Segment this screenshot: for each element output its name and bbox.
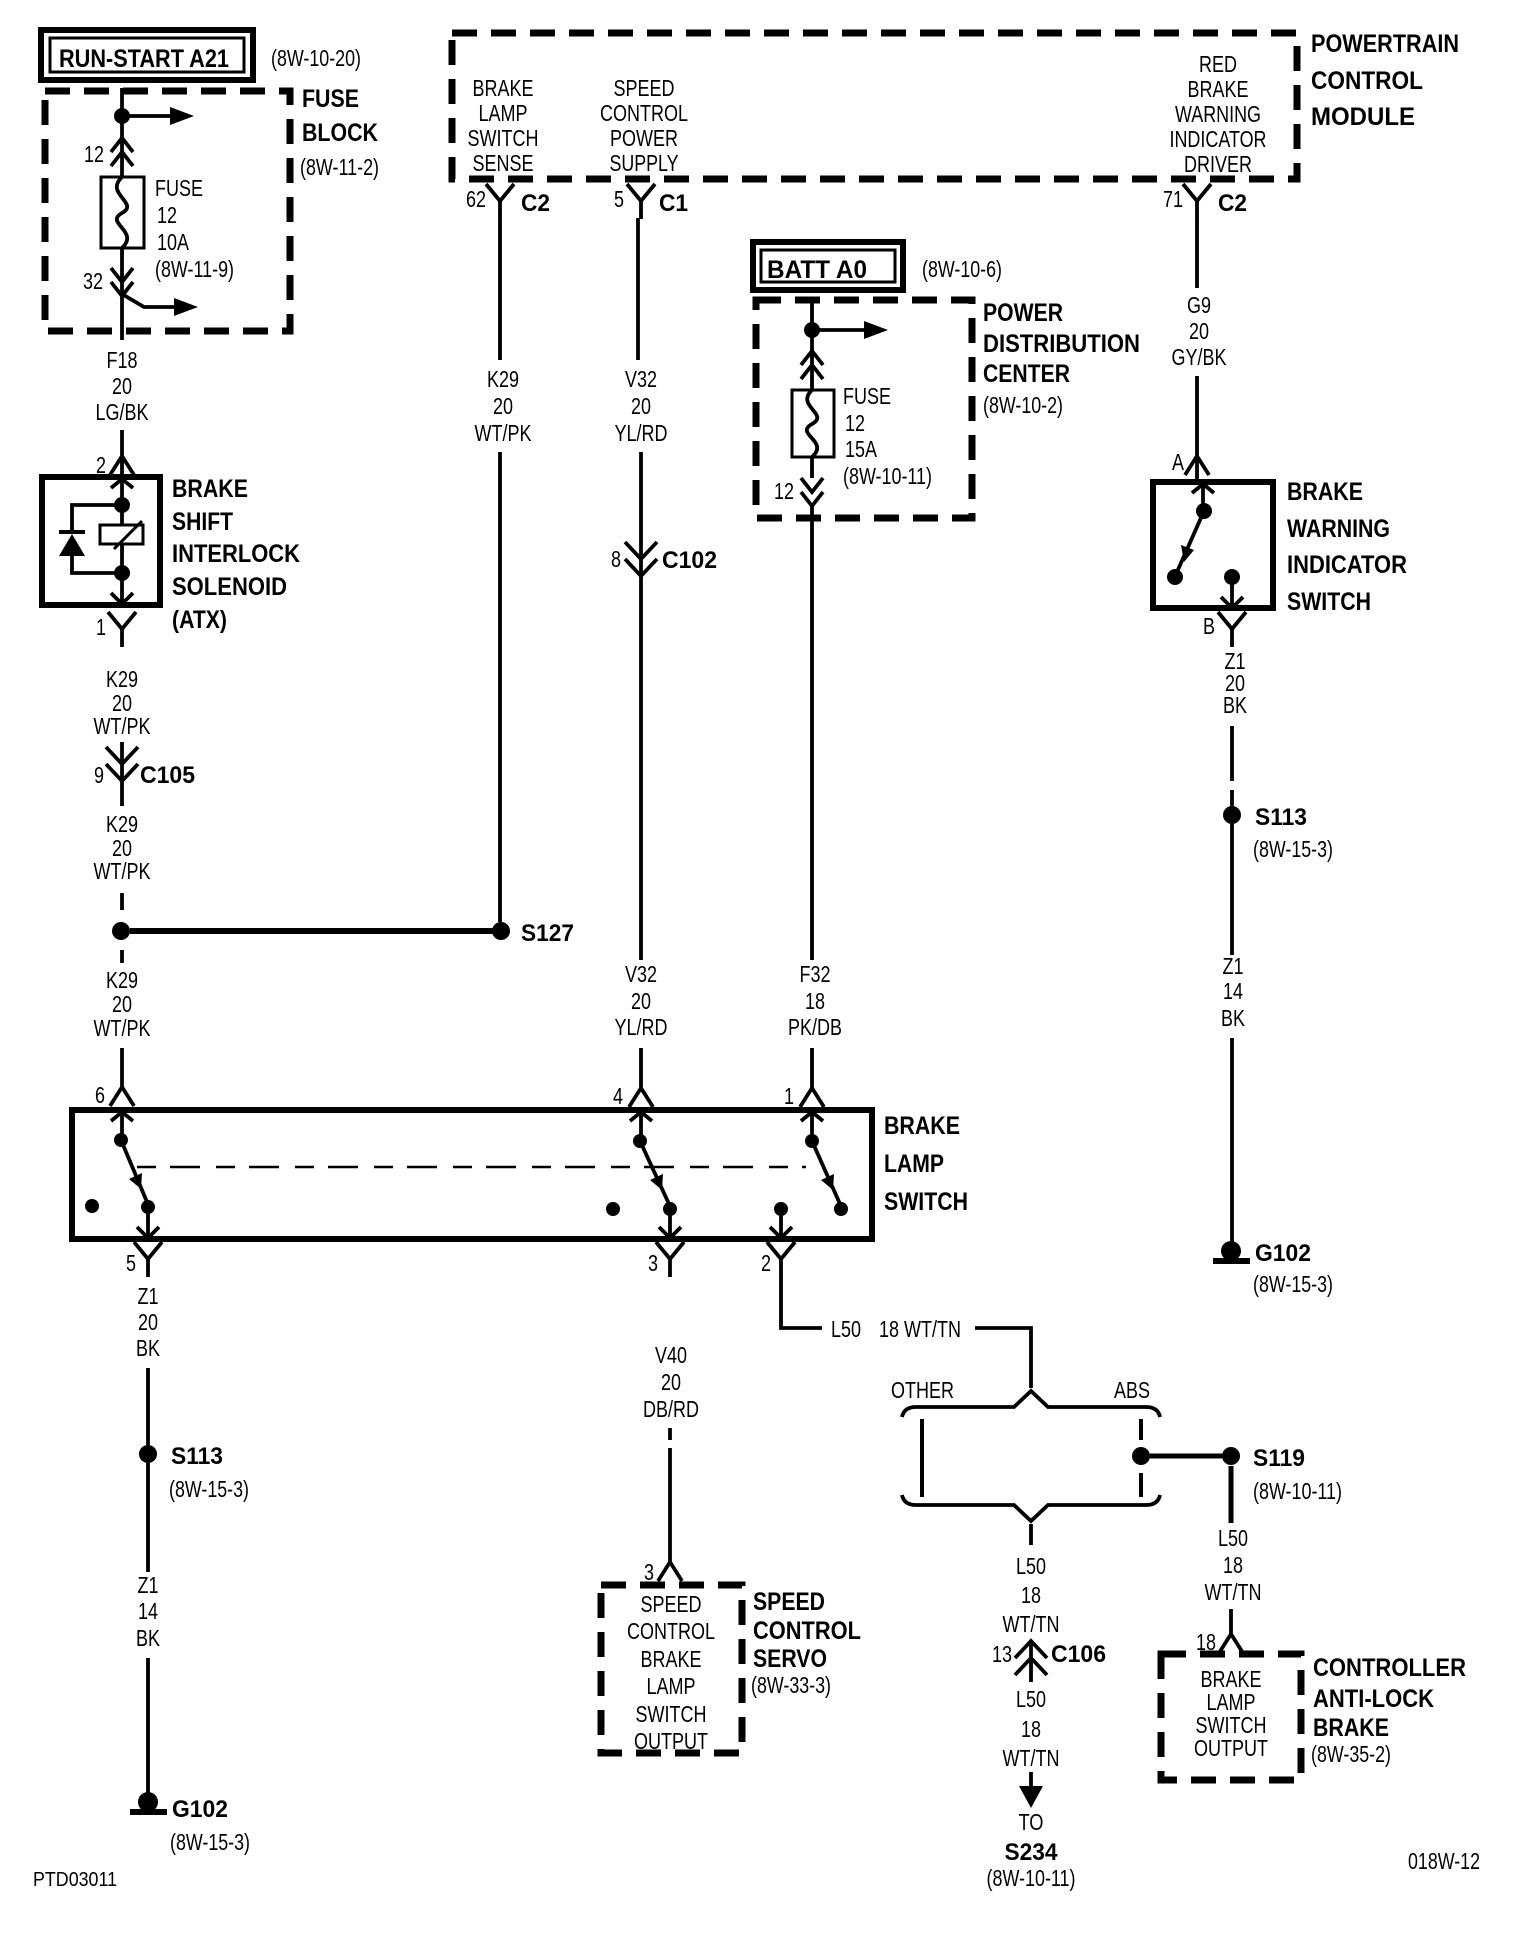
- wire pin 4 stub: [639, 1112, 643, 1141]
- junction lower in solenoid: [114, 565, 130, 581]
- splice S119 tie wire: [1150, 1454, 1222, 1459]
- svg-text:LAMP: LAMP: [647, 1673, 696, 1699]
- svg-text:INDICATOR: INDICATOR: [1287, 551, 1407, 579]
- wire branch arrow right (other circuits): [122, 294, 198, 316]
- ground G102 (right): [1213, 1241, 1250, 1264]
- svg-text:F32: F32: [800, 961, 831, 987]
- svg-text:MODULE: MODULE: [1311, 103, 1415, 131]
- svg-text:PTD03011: PTD03011: [33, 1869, 117, 1891]
- wire pin 3 exit with arrow: [659, 1209, 681, 1238]
- wire F32 18 PK/DB label: [788, 961, 842, 1040]
- svg-text:BK: BK: [136, 1625, 161, 1651]
- svg-text:LG/BK: LG/BK: [96, 399, 150, 425]
- wire L50 into controller anti-lock brake: [1229, 1609, 1233, 1634]
- svg-text:(8W-10-6): (8W-10-6): [922, 256, 1002, 282]
- svg-text:6: 6: [95, 1082, 105, 1108]
- svg-text:C2: C2: [1218, 190, 1247, 217]
- svg-text:12: 12: [774, 478, 794, 504]
- svg-text:SUPPLY: SUPPLY: [610, 150, 679, 176]
- svg-text:C105: C105: [140, 762, 195, 789]
- pin 5 connector brake lamp switch: [126, 1242, 162, 1277]
- splice junction left dot: [112, 922, 130, 940]
- svg-text:CONTROLLER: CONTROLLER: [1313, 1654, 1466, 1682]
- svg-text:POWER: POWER: [610, 125, 678, 151]
- svg-text:CONTROL: CONTROL: [600, 100, 688, 126]
- svg-text:(8W-10-11): (8W-10-11): [987, 1865, 1076, 1891]
- brake shift interlock solenoid box: [42, 477, 160, 605]
- svg-text:(8W-10-2): (8W-10-2): [983, 392, 1063, 418]
- wire Z1 14 BK (right): [1230, 824, 1234, 955]
- svg-text:V32: V32: [625, 961, 657, 987]
- svg-text:CONTROL: CONTROL: [1311, 67, 1423, 95]
- svg-text:(8W-10-11): (8W-10-11): [1253, 1478, 1342, 1504]
- svg-text:WARNING: WARNING: [1175, 101, 1261, 127]
- wire V32 into brake lamp switch: [639, 1048, 643, 1088]
- svg-text:(8W-11-9): (8W-11-9): [155, 256, 234, 282]
- svg-text:18: 18: [1223, 1552, 1243, 1578]
- wire K29 into brake lamp switch: [120, 1048, 124, 1087]
- diode (suppression): [59, 532, 85, 556]
- speed control servo title: [751, 1588, 861, 1698]
- svg-text:CONTROL: CONTROL: [753, 1617, 861, 1645]
- wire L50 to brace split: [975, 1328, 1031, 1388]
- brace upper (wiring option split): [902, 1391, 1160, 1417]
- svg-text:C2: C2: [521, 190, 550, 217]
- svg-text:1: 1: [784, 1083, 794, 1109]
- wire pin 5 exit with arrow: [137, 1207, 159, 1238]
- svg-text:B: B: [1203, 613, 1215, 639]
- svg-text:20: 20: [112, 991, 132, 1017]
- svg-text:L50: L50: [1218, 1525, 1248, 1551]
- pin A chevron inside switch: [1192, 484, 1214, 493]
- svg-text:3: 3: [648, 1250, 658, 1276]
- pin 3 connector brake lamp switch: [648, 1242, 684, 1277]
- svg-text:71: 71: [1163, 186, 1183, 212]
- svg-text:YL/RD: YL/RD: [615, 420, 668, 446]
- fuse block title: [300, 85, 379, 180]
- svg-text:WT/TN: WT/TN: [1003, 1745, 1060, 1771]
- svg-text:CENTER: CENTER: [983, 360, 1070, 388]
- wire into splice S127: [120, 893, 124, 910]
- svg-text:RED: RED: [1199, 51, 1237, 77]
- wire pin 6 stub: [120, 1112, 124, 1140]
- svg-text:S127: S127: [521, 920, 574, 947]
- pin B connector brake warning indicator switch: [1203, 612, 1246, 647]
- connector pin 71 C2: [1163, 184, 1247, 219]
- svg-text:BRAKE: BRAKE: [1313, 1714, 1389, 1742]
- svg-text:SOLENOID: SOLENOID: [172, 573, 287, 601]
- svg-text:BK: BK: [136, 1335, 161, 1361]
- svg-text:20: 20: [631, 393, 651, 419]
- wire below splice: [120, 950, 124, 963]
- svg-text:SENSE: SENSE: [473, 150, 534, 176]
- speed control servo pin function text: [627, 1591, 715, 1754]
- connector pin 12 PDC: [774, 478, 823, 506]
- brake warning indicator switch title: [1287, 478, 1407, 616]
- svg-text:POWER: POWER: [983, 299, 1063, 327]
- switch 3 movable arm with arrowhead: [812, 1141, 840, 1204]
- svg-text:(8W-15-3): (8W-15-3): [1253, 836, 1333, 862]
- svg-text:BLOCK: BLOCK: [302, 119, 378, 147]
- wire OTHER option stub: [920, 1419, 924, 1497]
- svg-text:K29: K29: [106, 967, 138, 993]
- svg-text:9: 9: [94, 762, 104, 788]
- wire G9 20 GY/BK label: [1172, 292, 1228, 370]
- svg-text:DISTRIBUTION: DISTRIBUTION: [983, 330, 1140, 358]
- svg-text:62: 62: [466, 186, 486, 212]
- svg-text:10A: 10A: [157, 229, 190, 255]
- wire ABS option dashed stub: [1139, 1419, 1143, 1497]
- svg-text:WT/PK: WT/PK: [475, 420, 533, 446]
- svg-text:20: 20: [112, 373, 132, 399]
- svg-text:3: 3: [644, 1559, 654, 1585]
- svg-text:(8W-35-2): (8W-35-2): [1311, 1741, 1391, 1767]
- svg-text:G102: G102: [172, 1796, 228, 1823]
- svg-text:S113: S113: [171, 1443, 223, 1470]
- wire L50 18 WT/TN label (below merge): [1003, 1553, 1060, 1637]
- switch 2 lower contact dot: [663, 1202, 677, 1216]
- pin 3 connector speed control servo: [644, 1559, 682, 1585]
- switch 1 upper contact dot: [114, 1133, 128, 1147]
- svg-text:OUTPUT: OUTPUT: [634, 1728, 708, 1754]
- pin 2 connector brake shift interlock solenoid: [96, 452, 134, 478]
- svg-text:18: 18: [805, 988, 825, 1014]
- PCM pin function: red brake warning indicator driver: [1170, 51, 1267, 177]
- wire L50 18 WT/TN inline label: [831, 1316, 961, 1342]
- svg-text:RUN-START A21: RUN-START A21: [59, 45, 229, 73]
- switch 1 lower contact dot: [141, 1200, 155, 1214]
- wire V32 20 YL/RD label (lower): [615, 961, 668, 1040]
- svg-text:WARNING: WARNING: [1287, 515, 1390, 543]
- svg-text:20: 20: [661, 1369, 681, 1395]
- junction on ABS stub: [1132, 1447, 1150, 1465]
- wire F18 to solenoid: [120, 430, 124, 474]
- svg-text:YL/RD: YL/RD: [615, 1014, 668, 1040]
- svg-text:OTHER: OTHER: [891, 1377, 954, 1403]
- pin 6 chevron inside switch: [111, 1112, 133, 1121]
- svg-text:32: 32: [83, 268, 103, 294]
- svg-text:V32: V32: [625, 366, 657, 392]
- relay coil with slash: [100, 521, 143, 549]
- wire V32 from PCM pin 5: [636, 218, 640, 360]
- svg-text:18: 18: [1021, 1582, 1041, 1608]
- power distribution center dashed enclosure: [756, 300, 972, 518]
- splice S119 dot: [1222, 1447, 1240, 1465]
- wire L50 18 WT/TN label (right): [1205, 1525, 1262, 1605]
- svg-text:12: 12: [84, 141, 104, 167]
- ground G102 label (left): [170, 1796, 250, 1855]
- fuse 12 15A value label: [843, 383, 932, 489]
- wire Z1 20 BK label (left): [136, 1283, 161, 1361]
- svg-text:C106: C106: [1051, 1641, 1106, 1668]
- PDC title: [983, 299, 1140, 418]
- svg-text:(8W-10-11): (8W-10-11): [843, 463, 932, 489]
- svg-text:K29: K29: [487, 366, 519, 392]
- wire K29 down to splice S127: [498, 452, 502, 922]
- wire to C105: [120, 742, 124, 806]
- svg-text:WT/PK: WT/PK: [94, 1015, 152, 1041]
- svg-text:BATT A0: BATT A0: [767, 256, 867, 284]
- svg-text:20: 20: [138, 1309, 158, 1335]
- pin 4 chevron inside switch: [630, 1112, 652, 1121]
- switch movable contact arm with arrowhead: [1177, 511, 1204, 572]
- svg-text:Z1: Z1: [138, 1283, 159, 1309]
- svg-text:L50: L50: [831, 1316, 861, 1342]
- svg-text:20: 20: [1189, 318, 1209, 344]
- switch 2 idle contact dot: [606, 1202, 620, 1216]
- svg-text:(8W-33-3): (8W-33-3): [751, 1672, 831, 1698]
- svg-text:FUSE: FUSE: [155, 175, 203, 201]
- svg-text:BK: BK: [1223, 692, 1248, 718]
- svg-text:OUTPUT: OUTPUT: [1194, 1735, 1268, 1761]
- wire branch arrow right in PDC: [812, 321, 888, 339]
- switch 3 upper contact dot: [805, 1134, 819, 1148]
- pin 1 connector brake shift interlock solenoid: [96, 612, 136, 647]
- wire pin A to contact: [1201, 484, 1205, 510]
- connector C102 pin 8: [611, 542, 717, 576]
- svg-text:V40: V40: [655, 1342, 687, 1368]
- wire Z1 to ground G102 (right): [1230, 1038, 1234, 1243]
- brake warning indicator switch box: [1153, 482, 1273, 608]
- wire Z1 to ground G102 (left): [146, 1658, 150, 1794]
- svg-text:A: A: [1172, 449, 1185, 475]
- wire batt feed in PDC: [810, 297, 814, 390]
- off-page destination label TO S234: [987, 1809, 1076, 1891]
- svg-text:WT/TN: WT/TN: [1205, 1579, 1262, 1605]
- wire fuse output PDC: [810, 457, 814, 520]
- svg-text:CONTROL: CONTROL: [627, 1618, 715, 1644]
- svg-text:S119: S119: [1253, 1445, 1305, 1472]
- dashed gang line inside switch: [137, 1166, 806, 1169]
- PCM title: [1311, 30, 1459, 131]
- svg-text:SPEED: SPEED: [753, 1588, 825, 1616]
- wire pin B exit with arrow: [1221, 577, 1243, 608]
- wire Z1 14 BK label (right): [1221, 953, 1246, 1031]
- pin 1 connector brake lamp switch: [784, 1083, 824, 1109]
- wire F18 20 LG/BK label: [96, 347, 150, 425]
- switch contact lower-right dot: [1224, 569, 1240, 585]
- splice S113 dot (left): [139, 1445, 157, 1463]
- wire V40 to speed control servo: [668, 1428, 672, 1562]
- wire V32 through C102: [639, 452, 643, 960]
- switch 1 movable arm with arrowhead: [121, 1140, 147, 1202]
- wire V32 20 YL/RD label (upper): [615, 366, 668, 446]
- svg-text:SWITCH: SWITCH: [884, 1188, 968, 1216]
- wire run-start feed into fuse block: [120, 88, 124, 177]
- switch 3 feed contact dot: [774, 1202, 788, 1216]
- wire fuse output: [120, 248, 124, 340]
- svg-text:BRAKE: BRAKE: [884, 1112, 960, 1140]
- pin 18 connector controller anti-lock brake: [1196, 1629, 1243, 1655]
- svg-text:WT/PK: WT/PK: [94, 858, 152, 884]
- svg-text:INTERLOCK: INTERLOCK: [172, 540, 300, 568]
- node RUN-START A21 feed label box: [41, 30, 253, 80]
- solenoid title: [172, 475, 300, 634]
- wire K29 label (lower): [94, 967, 152, 1041]
- controller anti-lock brake dashed enclosure: [1161, 1654, 1301, 1780]
- svg-text:WT/PK: WT/PK: [94, 713, 152, 739]
- connector C106 pin 13: [992, 1640, 1106, 1682]
- switch 2 upper contact dot: [633, 1134, 647, 1148]
- svg-text:INDICATOR: INDICATOR: [1170, 126, 1267, 152]
- pin 1 chevron inside switch: [801, 1112, 823, 1121]
- svg-text:SERVO: SERVO: [753, 1645, 827, 1673]
- wire pin 1 stub: [810, 1112, 814, 1141]
- CAB pin function text: [1194, 1666, 1268, 1761]
- wire L50 18 WT/TN label (to S234): [1003, 1686, 1060, 1771]
- svg-text:(ATX): (ATX): [172, 606, 227, 634]
- svg-text:5: 5: [126, 1250, 136, 1276]
- wire G9 from PCM pin 71: [1195, 218, 1199, 288]
- pin 2 chevron inside solenoid: [111, 479, 133, 488]
- svg-text:BRAKE: BRAKE: [641, 1646, 702, 1672]
- svg-text:ABS: ABS: [1114, 1377, 1150, 1403]
- node BATT A0 feed label box: [753, 242, 903, 290]
- wire K29 label (middle): [94, 811, 152, 884]
- svg-text:SHIFT: SHIFT: [172, 508, 233, 536]
- brake lamp switch box: [72, 1110, 872, 1239]
- fuse 12 15A symbol: [792, 390, 834, 457]
- brake lamp switch title: [884, 1112, 968, 1216]
- wire V40 20 DB/RD label: [643, 1342, 699, 1422]
- connector C105 pin 9: [94, 747, 195, 789]
- wire Z1 20 BK label (right): [1223, 648, 1248, 718]
- ground G102 label (right): [1253, 1240, 1333, 1297]
- fuse 12 10A value label: [155, 175, 234, 282]
- svg-text:FUSE: FUSE: [302, 85, 359, 113]
- svg-text:S234: S234: [1005, 1839, 1059, 1866]
- svg-text:L50: L50: [1016, 1686, 1046, 1712]
- svg-text:5: 5: [614, 186, 624, 212]
- wire K29 label (upper): [94, 666, 152, 739]
- svg-text:(8W-11-2): (8W-11-2): [300, 154, 379, 180]
- svg-text:LAMP: LAMP: [479, 100, 528, 126]
- svg-text:DB/RD: DB/RD: [643, 1396, 699, 1422]
- wire K29 from PCM pin 62: [498, 218, 502, 360]
- pin 2 connector brake lamp switch: [761, 1242, 795, 1277]
- svg-text:018W-12: 018W-12: [1408, 1848, 1480, 1874]
- splice S113 label (right): [1253, 804, 1333, 862]
- pin A connector brake warning indicator switch: [1172, 449, 1209, 475]
- svg-text:G9: G9: [1187, 292, 1211, 318]
- svg-text:(8W-15-3): (8W-15-3): [1253, 1271, 1333, 1297]
- svg-text:(8W-15-3): (8W-15-3): [170, 1829, 250, 1855]
- svg-text:12: 12: [157, 202, 177, 228]
- junction in fuse block: [114, 108, 130, 124]
- svg-text:Z1: Z1: [138, 1572, 159, 1598]
- svg-text:18 WT/TN: 18 WT/TN: [879, 1316, 961, 1342]
- svg-text:(8W-15-3): (8W-15-3): [169, 1476, 249, 1502]
- wire G9 to brake warning indicator switch: [1195, 376, 1199, 480]
- PCM pin function: brake lamp switch sense: [468, 75, 539, 176]
- brace lower (wiring option merge): [902, 1495, 1160, 1521]
- svg-text:DRIVER: DRIVER: [1184, 151, 1252, 177]
- switch 2 movable arm with arrowhead: [640, 1141, 669, 1204]
- splice S127 dot: [492, 922, 510, 940]
- powertrain control module dashed enclosure: [452, 33, 1297, 179]
- svg-text:BRAKE: BRAKE: [473, 75, 534, 101]
- pin 1 exit arrow of solenoid: [111, 593, 133, 604]
- wire F32 into brake lamp switch: [810, 1048, 814, 1088]
- svg-text:13: 13: [992, 1641, 1012, 1667]
- fuse 12 10A symbol: [101, 177, 144, 248]
- svg-text:18: 18: [1021, 1716, 1041, 1742]
- svg-text:SWITCH: SWITCH: [1287, 588, 1371, 616]
- svg-text:POWERTRAIN: POWERTRAIN: [1311, 30, 1459, 58]
- svg-text:1: 1: [96, 614, 106, 640]
- connector pin 5 C1: [614, 184, 688, 219]
- svg-text:BRAKE: BRAKE: [1287, 478, 1363, 506]
- wire pin 2 exit with arrow: [770, 1209, 792, 1238]
- wire L50 below splice S119: [1229, 1466, 1234, 1523]
- svg-text:F18: F18: [107, 347, 138, 373]
- svg-text:SWITCH: SWITCH: [636, 1701, 707, 1727]
- splice S113 dot (right): [1223, 806, 1241, 824]
- wire K29 20 WT/PK label (column 2): [475, 366, 533, 446]
- wire Z1 to splice S113 (left): [146, 1368, 150, 1445]
- wire F32 from PDC fuse: [810, 518, 814, 960]
- svg-text:LAMP: LAMP: [884, 1150, 944, 1178]
- switch 1 idle contact dot: [85, 1199, 99, 1213]
- junction in PDC: [804, 322, 820, 338]
- svg-text:GY/BK: GY/BK: [1172, 344, 1228, 370]
- svg-text:G102: G102: [1255, 1240, 1311, 1267]
- svg-text:14: 14: [138, 1598, 158, 1624]
- svg-text:K29: K29: [106, 811, 138, 837]
- PCM pin function: speed control power supply: [600, 75, 688, 176]
- svg-text:12: 12: [845, 410, 865, 436]
- svg-text:15A: 15A: [845, 436, 878, 462]
- connector pin 12 (fuse block cavity): [84, 138, 133, 167]
- svg-text:8: 8: [611, 546, 621, 572]
- svg-text:Z1: Z1: [1223, 953, 1244, 979]
- controller anti-lock brake title: [1311, 1654, 1466, 1767]
- splice S119 label: [1253, 1445, 1342, 1504]
- wire inside solenoid: [120, 479, 124, 605]
- svg-text:TO: TO: [1019, 1809, 1044, 1835]
- svg-text:4: 4: [613, 1083, 623, 1109]
- pin 6 connector brake lamp switch: [95, 1082, 134, 1108]
- wire Z1 14 BK (left): [146, 1463, 150, 1572]
- svg-text:C1: C1: [659, 190, 688, 217]
- svg-text:20: 20: [493, 393, 513, 419]
- svg-text:SPEED: SPEED: [614, 75, 675, 101]
- svg-text:ANTI-LOCK: ANTI-LOCK: [1313, 1685, 1434, 1713]
- svg-text:L50: L50: [1016, 1553, 1046, 1579]
- svg-text:20: 20: [631, 988, 651, 1014]
- wire L50 from pin 2 with bend: [781, 1276, 822, 1328]
- wire Z1 14 BK label (left): [136, 1572, 161, 1651]
- svg-text:BRAKE: BRAKE: [1188, 76, 1249, 102]
- svg-text:BK: BK: [1221, 1005, 1246, 1031]
- diode clamp branch wire: [72, 505, 122, 573]
- splice S113 label (left): [169, 1443, 249, 1502]
- svg-text:14: 14: [1223, 978, 1243, 1004]
- svg-text:S113: S113: [1255, 804, 1307, 831]
- wire branch arrow right: [122, 107, 194, 125]
- svg-text:(8W-10-20): (8W-10-20): [271, 45, 361, 71]
- svg-text:2: 2: [761, 1250, 771, 1276]
- svg-text:FUSE: FUSE: [843, 383, 891, 409]
- svg-text:K29: K29: [106, 666, 138, 692]
- splice S127 tie wire: [130, 928, 493, 934]
- svg-text:BRAKE: BRAKE: [172, 475, 248, 503]
- svg-text:C102: C102: [662, 547, 717, 574]
- junction upper in solenoid: [114, 497, 130, 513]
- svg-text:WT/TN: WT/TN: [1003, 1611, 1060, 1637]
- svg-text:SWITCH: SWITCH: [468, 125, 539, 151]
- wire below brace merge: [1029, 1524, 1033, 1545]
